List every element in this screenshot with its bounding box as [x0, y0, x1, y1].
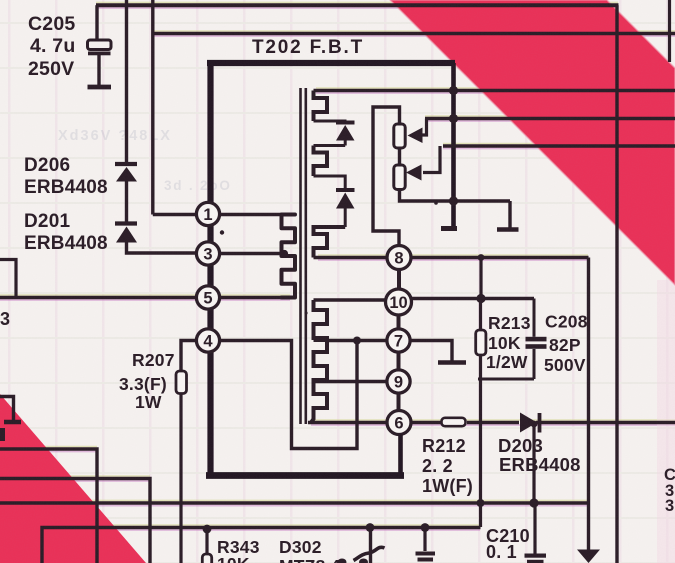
secondary winding top group: [314, 91, 328, 122]
wire vertical x=127 from top to D206: [125, 0, 128, 163]
wire pin7 stub from winding: [314, 339, 329, 342]
wire wiper tap 2 y=146: [443, 144, 675, 147]
red watermark band (upper): [390, 0, 675, 285]
capacitor (bottom): [423, 528, 426, 552]
junction VR rail/bus: [449, 196, 458, 205]
potentiometer VR1: [394, 124, 405, 148]
wire x=588 to diode: [587, 503, 590, 550]
wire bus y=503: [0, 501, 589, 505]
junction bus: [449, 114, 458, 123]
wire x=534 link: [532, 424, 535, 503]
wire pin8 row y=257.5: [314, 256, 388, 259]
wire pin10 left to winding: [314, 298, 386, 301]
wire pin10 right (R213 box top): [412, 297, 535, 300]
wire vertical x=156 from top to pin1 wire: [151, 0, 154, 215]
junction top bus: [449, 86, 458, 95]
wire pin5 bus y=297.5: [0, 296, 197, 299]
wire pin7 left: [328, 339, 387, 342]
wire pin9 left: [314, 380, 388, 383]
right edge scan tint: [657, 280, 675, 563]
ground terminal: [508, 201, 511, 228]
wire R213 stem: [479, 258, 482, 299]
wire R207 down to bottom: [179, 393, 182, 563]
wire stub y=396: [0, 397, 14, 421]
capacitor C210: [533, 503, 536, 554]
wire 8-10 connector: [397, 270, 401, 291]
wire vertical x=670 top right: [668, 0, 671, 62]
wire pin6 column to box bottom: [398, 435, 403, 477]
diode D206: [115, 162, 137, 166]
pin 8: [387, 246, 411, 270]
red watermark band (lower-left): [0, 394, 146, 563]
junction cap stub: [421, 523, 430, 532]
wire D203 right to edge: [536, 421, 675, 424]
resistor R207: [176, 371, 187, 394]
junction D302: [366, 523, 375, 532]
wire pin3 to winding tap: [220, 252, 287, 255]
wire top bus y=7: [96, 3, 619, 7]
wire pin5 to winding: [220, 296, 295, 299]
junction R343: [203, 525, 212, 534]
wire pin4 to R207 column: [181, 341, 197, 372]
block bottom edge: [478, 378, 534, 381]
wire step y=449: [0, 449, 97, 563]
capacitor C208 (right edge of block): [533, 299, 536, 337]
secondary winding third group: [314, 227, 346, 258]
diode D201: [115, 221, 137, 225]
wire x=588 from pin8 row: [587, 258, 590, 504]
wire left stub node y=259: [0, 260, 16, 298]
ghost bleed text: [58, 128, 232, 193]
resistor R213 (left edge of block): [479, 299, 482, 331]
wire 7-9 connector: [397, 352, 401, 370]
resistor R212: [442, 418, 466, 426]
wire bus x=453.5 (right border): [451, 63, 456, 226]
wire bus y=527.5: [42, 528, 481, 563]
pin 3: [196, 242, 219, 265]
zener D302: [369, 528, 372, 563]
primary winding (left): [282, 215, 296, 298]
diode (rectifier b): [336, 188, 355, 192]
wire pin6 row right: [411, 421, 441, 424]
wire pin4 under-winding route: [220, 341, 357, 449]
wire VR1-VR2: [398, 148, 401, 165]
pin 10: [386, 289, 412, 315]
arrow wiper VR1: [421, 119, 427, 136]
wire pin8 top route: [373, 107, 400, 246]
wire pin1 branch: [153, 213, 196, 216]
wire y=34 horizontal to right edge: [153, 32, 675, 36]
scan specks: [220, 230, 224, 234]
junction R213 stem: [476, 294, 485, 303]
resistor R343: [205, 529, 208, 554]
capacitor C205: [95, 5, 98, 40]
junction winding tap: [281, 250, 288, 257]
pin 1: [196, 202, 219, 225]
wire step y=478.5: [0, 479, 150, 563]
secondary winding mid group: [314, 146, 328, 177]
wire VR2 to ground rail: [400, 190, 511, 202]
potentiometer VR2: [394, 165, 405, 190]
wire pin7 right to terminal: [410, 341, 452, 362]
diode (rectifier a): [314, 121, 346, 122]
wire winding to top bus y=90.5: [314, 89, 675, 92]
arrow wiper VR2: [423, 146, 440, 173]
terminal stub at left edge: [0, 428, 5, 441]
scan chroma fringes: [96, 1, 618, 3]
wire 9-6 connector: [397, 393, 401, 411]
pin 7: [387, 329, 410, 352]
junction pin7 wire: [353, 337, 361, 345]
wire 10-7 connector: [397, 315, 401, 329]
pin 5: [196, 286, 219, 309]
wire vertical x=619 full height: [615, 5, 618, 563]
wire pin6 left: [308, 421, 387, 424]
pin 6: [387, 411, 411, 435]
diode D203: [520, 413, 537, 433]
pin 9: [387, 370, 410, 393]
diode (to bottom edge): [577, 550, 600, 563]
wire wiper tap 1 y=118.5: [425, 117, 675, 120]
pin 4: [196, 329, 219, 352]
secondary winding lower long group: [311, 300, 327, 423]
wire D206 to D201: [125, 181, 128, 222]
wire D201 to pin3: [127, 242, 197, 253]
transformer core: [299, 88, 302, 424]
